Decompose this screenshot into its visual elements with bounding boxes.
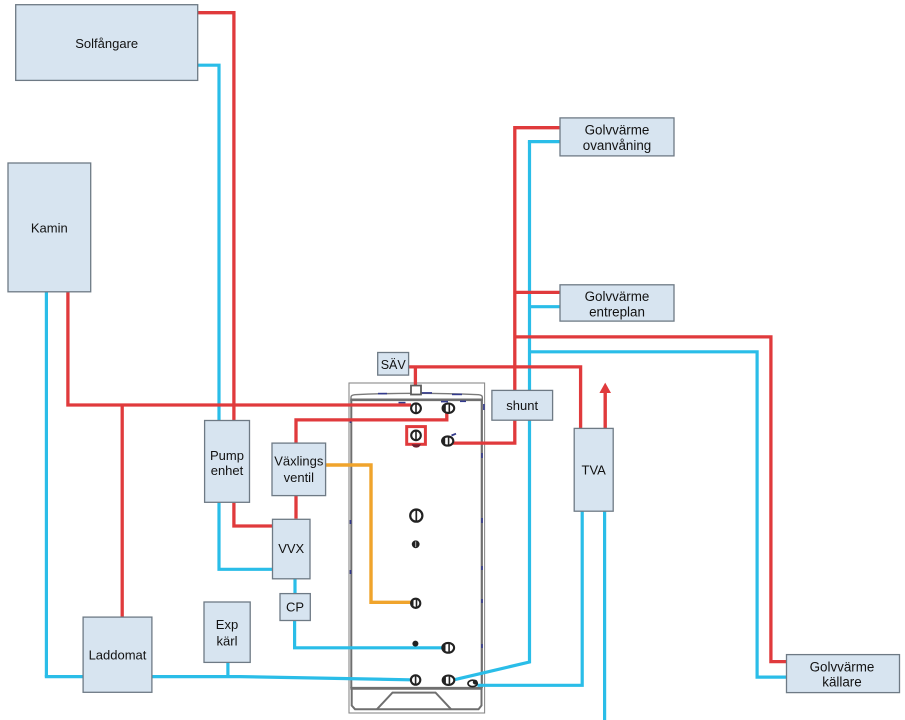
tank left body edge <box>350 400 352 688</box>
wire cyan VVX to CP <box>293 578 296 594</box>
port P11 bottom-mid <box>443 676 455 685</box>
svg-text:CP: CP <box>286 600 304 615</box>
box Exp karl <box>204 602 250 662</box>
wire cyan exp-karl drop <box>226 662 229 677</box>
svg-text:entreplan: entreplan <box>589 304 645 319</box>
wire red solfangare supply to pump enhet <box>198 13 234 421</box>
wire red kamin supply to tank port1 <box>68 292 411 406</box>
wire cyan CP to tank port <box>295 620 443 648</box>
tank bottom plate <box>350 687 482 690</box>
svg-text:Golvvärme: Golvvärme <box>810 660 875 675</box>
red square marker around port P3 <box>407 427 426 445</box>
tank lid <box>351 393 482 400</box>
box CP <box>280 594 310 621</box>
svg-text:Golvvärme: Golvvärme <box>585 289 650 304</box>
svg-text:ventil: ventil <box>284 470 314 485</box>
box Laddomat <box>83 617 152 692</box>
svg-text:ovanvåning: ovanvåning <box>583 138 652 153</box>
svg-text:enhet: enhet <box>211 463 244 478</box>
svg-text:Golvvärme: Golvvärme <box>585 123 650 138</box>
box TVA <box>574 428 613 511</box>
box Kamin <box>8 163 91 292</box>
accumulator tank outer frame <box>349 383 485 713</box>
box Pump enhet <box>205 421 250 503</box>
wire red TVA relief arrow <box>599 383 611 429</box>
wire cyan golvvarme kallare return <box>530 352 787 677</box>
svg-text:Exp: Exp <box>216 617 238 632</box>
svg-text:Solfångare: Solfångare <box>75 36 138 51</box>
wire cyan TVA right down offpage <box>603 511 606 720</box>
port P4 right to shunt <box>442 434 456 446</box>
svg-text:TVA: TVA <box>582 462 607 477</box>
box Solfangare <box>16 5 198 81</box>
box VVX <box>273 519 311 579</box>
tank right body edge <box>481 400 483 688</box>
wire red vaxlingsventil to VVX <box>294 495 297 518</box>
tank top plate <box>350 398 482 401</box>
box SAV <box>378 353 409 376</box>
svg-text:SÄV: SÄV <box>381 358 407 372</box>
port P2 top-right <box>443 404 455 413</box>
wire orange vaxlingsventil to tank mid port <box>326 465 411 602</box>
box shunt <box>492 390 553 420</box>
wire cyan golvvarme entreplan return <box>530 305 561 308</box>
wire red golvvarme entreplan supply <box>515 291 560 294</box>
port P3 in red square <box>411 431 421 441</box>
box Golvvarme entreplan <box>560 285 674 321</box>
port P8 CP connection <box>442 643 454 653</box>
wire red tank port4 to shunt riser to golvvarme ovanvaning <box>453 128 561 443</box>
wire red branch to laddomat <box>121 405 124 617</box>
wire cyan TVA left down to small tank port <box>478 511 583 685</box>
svg-text:shunt: shunt <box>506 398 538 413</box>
wire red pump enhet to VVX <box>234 502 273 526</box>
box Golvvarme ovanvaning <box>560 118 674 156</box>
port P9 small dot <box>412 641 418 647</box>
wire red SAV line to TVA <box>409 367 581 429</box>
port P5 middle large <box>410 509 422 521</box>
wire cyan kamin-return down <box>45 292 48 677</box>
port P1 top-left <box>411 403 421 413</box>
wire cyan solfangare-return: Solfangare right edge down to VVX left <box>198 65 273 569</box>
wire red golvvarme kallare supply <box>515 337 787 662</box>
wire red tank port2 to vaxlingsventil <box>296 411 447 443</box>
svg-text:kärl: kärl <box>217 634 238 649</box>
svg-text:Växlings: Växlings <box>274 454 324 469</box>
tank top nub <box>411 386 421 395</box>
svg-text:VVX: VVX <box>278 541 304 556</box>
svg-text:källare: källare <box>822 675 861 690</box>
svg-text:Laddomat: Laddomat <box>89 648 147 663</box>
box Golvvarme kallare <box>787 655 900 693</box>
svg-text:Kamin: Kamin <box>31 220 68 235</box>
port P12 bottom small <box>468 680 478 687</box>
wire cyan golvvarme ovanvaning return <box>528 140 560 143</box>
tank skirt center bump <box>377 693 451 710</box>
port P7 orange connection <box>411 599 420 608</box>
tank skirt <box>352 690 482 710</box>
box Vaxlings ventil <box>272 443 326 496</box>
port P10 bottom-left <box>411 675 420 684</box>
maroon blob under P3 <box>412 444 421 447</box>
port P6 small dot <box>412 540 420 548</box>
navy artifact dashes <box>351 393 484 648</box>
wire red SAV drop to tank nub <box>414 367 417 386</box>
wire cyan bottom horizontal to tank port <box>45 677 411 680</box>
wire cyan shunt vertical with diagonal to tank port <box>455 142 530 680</box>
svg-text:Pump: Pump <box>210 448 244 463</box>
